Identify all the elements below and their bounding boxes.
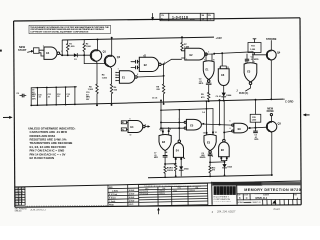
svg-text:12: 12: [215, 132, 217, 134]
wire E5 output to E9: [201, 124, 232, 125]
svg-text:.01: .01: [38, 97, 41, 99]
svg-text:20%: 20%: [32, 98, 36, 100]
svg-text:330: 330: [170, 170, 173, 172]
spare gate input pin boxes: [121, 121, 126, 132]
svg-text:2N3634: 2N3634: [159, 193, 165, 195]
svg-text:12-9-69: 12-9-69: [128, 197, 134, 199]
title block outer verticals: [212, 182, 237, 205]
wire drop to E3b inputs: [247, 52, 253, 63]
gate E1 input stubs: [116, 73, 119, 81]
svg-text:1: 1: [118, 68, 119, 70]
wire E8 out / capacitor C7: [164, 151, 166, 156]
resistor R7: [181, 36, 190, 51]
svg-text:a. Bellis: a. Bellis: [112, 191, 118, 193]
wire Q1 collector to bus: [97, 40, 99, 51]
input terminal box: [34, 48, 40, 54]
gate E2 top pin stub: [144, 55, 146, 58]
svg-text:12-8-69: 12-8-69: [128, 190, 134, 192]
border frame top: [14, 18, 300, 21]
gate E2 (NAND with inverted inputs): [139, 57, 161, 71]
svg-text:REV: REV: [294, 194, 297, 196]
svg-text:C6 .01: C6 .01: [216, 96, 221, 98]
wire Q2 emitter down: [109, 66, 112, 84]
resistor R9: [201, 92, 210, 101]
svg-text:10: 10: [203, 133, 205, 135]
svg-text:.01: .01: [57, 96, 60, 98]
svg-text:+10V: +10V: [216, 36, 223, 40]
svg-text:SHEET: SHEET: [253, 202, 258, 204]
diode D2 (to bus): [222, 86, 233, 101]
label MEM DONE: [267, 107, 275, 115]
svg-text:MMFD: MMFD: [200, 157, 206, 159]
svg-text:1N3606: 1N3606: [189, 190, 195, 192]
svg-text:10: 10: [169, 129, 171, 131]
capacitor C9: [253, 128, 259, 141]
transistor Q5: [266, 121, 281, 131]
scale / sheet strip row: [238, 199, 298, 205]
diode D1: [74, 53, 77, 61]
revision table (bottom left): [15, 187, 26, 206]
wire bus drop to E3btm input 1: [206, 101, 208, 134]
svg-text:R. Doane: R. Doane: [109, 198, 116, 200]
resistor R2: [83, 40, 92, 56]
svg-text:6: 6: [230, 128, 231, 130]
svg-text:11: 11: [212, 156, 214, 158]
resistor R13 under E4b: [170, 160, 177, 177]
svg-text:1,500: 1,500: [86, 46, 92, 48]
svg-text:i: i: [218, 189, 219, 194]
wire bus drop to E5 out net: [219, 100, 221, 125]
svg-text:E2 IS DEC74H40N: E2 IS DEC74H40N: [30, 156, 55, 160]
svg-text:RUN (1): RUN (1): [239, 92, 248, 95]
svg-text:1,000: 1,000: [69, 46, 75, 48]
capacitor C3 on E3b input: [245, 59, 249, 61]
svg-text:TRANSISTOR & DIODE CONVERSION: TRANSISTOR & DIODE CONVERSION CHART: [144, 185, 202, 188]
wire Q5 emitter down to lower bus: [270, 131, 272, 175]
svg-text:C GRD: C GRD: [285, 99, 293, 103]
drawing number strip table: [160, 13, 214, 21]
diode D3 under E4b: [179, 160, 189, 176]
gate E6a (AND pointing down): [218, 69, 229, 86]
svg-text:F2: F2: [122, 129, 124, 131]
svg-text:START: START: [18, 48, 27, 52]
svg-text:6: 6: [164, 62, 165, 64]
svg-text:MFD: MFD: [154, 157, 159, 159]
resistor R6: [110, 84, 118, 105]
transistor Q4: [266, 50, 280, 60]
label C7: [154, 153, 159, 159]
svg-text:C8: C8: [16, 93, 18, 95]
svg-text:3: 3: [208, 51, 209, 53]
size code number rev cells: [237, 193, 298, 200]
svg-text:SCALE: SCALE: [238, 201, 245, 204]
diode D4 under E6btm: [222, 164, 232, 175]
lower ground bus: [148, 175, 272, 178]
svg-text:M720-O-1: M720-O-1: [256, 196, 268, 200]
svg-text:OF: OF: [259, 202, 261, 204]
wire E3b output to J RUN: [246, 85, 251, 92]
label R4: [102, 74, 108, 80]
svg-text:MFD: MFD: [199, 83, 204, 85]
svg-text:2: 2: [61, 51, 62, 53]
wire R11 to Q4 base: [255, 53, 267, 55]
main ground bus: [31, 99, 283, 105]
svg-text:8: 8: [145, 124, 146, 126]
wire vertical to E4b bubble: [178, 110, 180, 140]
svg-text:i: i: [224, 189, 225, 194]
wire E2b output along top: [207, 52, 253, 54]
input arrow into terminal: [28, 50, 34, 53]
svg-text:99: 99: [19, 204, 21, 206]
wire drops to E1a inputs: [206, 54, 212, 62]
svg-text:fount: fount: [274, 207, 281, 211]
gate E1 input pin ticks: [115, 72, 116, 81]
capacitor C18 (left of bank): [16, 93, 26, 97]
svg-text:2: 2: [179, 128, 180, 130]
dark band above title block: [212, 182, 262, 186]
gate E6btm (NAND pointing up, bubble on top): [219, 139, 230, 159]
capacitor C1 on gate E2 inputs: [131, 60, 139, 69]
svg-text:D664: D664: [226, 94, 232, 97]
note box (top left): [29, 25, 111, 33]
svg-text:9: 9: [204, 59, 205, 61]
wire Q2 collector to bus: [111, 38, 113, 57]
transistor Q2: [104, 55, 120, 66]
svg-text:D664: D664: [173, 190, 177, 192]
svg-text:MFD: MFD: [254, 139, 259, 141]
gate E4 (NAND): [44, 47, 60, 59]
svg-text:E. M. Cook: E. M. Cook: [109, 194, 117, 196]
svg-text:1,000: 1,000: [250, 49, 256, 51]
svg-text:d: d: [214, 189, 217, 194]
svg-text:12-9-69: 12-9-69: [128, 201, 134, 203]
capacitor bank grid: [30, 86, 76, 106]
svg-text:A-ML-M720-0-1: A-ML-M720-0-1: [30, 209, 47, 212]
border frame right: [300, 18, 301, 205]
gate E5 (AND horizontal, inverted inputs): [184, 119, 201, 130]
resistor R8: [156, 84, 164, 104]
border frame bottom: [15, 205, 301, 207]
wire E1 output to node B: [137, 76, 163, 77]
wire R2 to Q2 base: [84, 55, 105, 63]
capacitor C8 under E3btm: [200, 153, 213, 163]
resistor R5: [88, 84, 98, 105]
svg-text:10: 10: [213, 59, 215, 61]
tiny print below border left: [15, 209, 28, 213]
gate E3btm (NOR pointing down): [204, 135, 216, 154]
svg-text:B2: B2: [122, 122, 124, 124]
left margin arrow: [3, 116, 13, 119]
label J RUN (1): [236, 90, 248, 95]
title block row dividers: [237, 193, 301, 200]
svg-text:1,500: 1,500: [88, 89, 94, 91]
resistor R15 box: [250, 99, 261, 128]
svg-text:8: 8: [137, 74, 138, 76]
DEC logo digital blocks: [214, 186, 236, 203]
svg-text:DRA 110: DRA 110: [15, 210, 22, 213]
svg-text:8: 8: [166, 152, 167, 154]
svg-text:MEMORY DETECTION M720: MEMORY DETECTION M720: [244, 188, 300, 192]
node / h-wire to E4b leg: [164, 163, 166, 165]
svg-text:CORPORATION: CORPORATION: [214, 198, 231, 201]
svg-text:DONE: DONE: [267, 110, 275, 113]
wire MEM DONE to Q5: [270, 116, 272, 122]
resistor R16: [209, 162, 215, 176]
svg-text:SIZE: SIZE: [237, 195, 240, 197]
svg-text:21: 21: [15, 204, 17, 206]
right margin arrow: [303, 113, 310, 116]
svg-text:5: 5: [230, 121, 231, 123]
svg-text:C5 .01: C5 .01: [152, 98, 157, 100]
gate E4b (NAND pointing up, bubble on top): [173, 140, 185, 160]
wire terminal to gate E4: [39, 50, 44, 56]
svg-text:1: 1: [186, 47, 187, 49]
signature table: [108, 184, 139, 206]
svg-text:2: 2: [186, 59, 187, 61]
label NEW START: [18, 45, 27, 52]
gate E2b (NAND top right): [182, 48, 208, 60]
svg-text:1-0-0118: 1-0-0118: [172, 15, 188, 19]
svg-text:COPYRIGHT 1969 BY DIGITAL EQUI: COPYRIGHT 1969 BY DIGITAL EQUIPMENT CORP…: [30, 31, 88, 34]
wire E5 inputs: [161, 122, 184, 128]
gate E1a (NOR pointing down): [203, 61, 214, 83]
wire bus drop to node A: [61, 40, 63, 55]
wire bus drop x161 to E8/E5: [160, 101, 162, 132]
svg-text:12: 12: [219, 67, 221, 69]
svg-text:.01 MFD: .01 MFD: [251, 59, 259, 61]
svg-text:204, 204, A2627: 204, 204, A2627: [216, 211, 236, 214]
fold arrow below border (pointing up): [157, 207, 160, 214]
svg-text:10: 10: [130, 134, 132, 136]
wire drop to E6a inputs: [221, 53, 227, 68]
svg-text:l: l: [233, 189, 234, 194]
ruler tick marks along bottom border: [26, 205, 107, 207]
wire E2 output rise to gate E3 lower input: [161, 59, 181, 64]
top +10V bus: [62, 37, 214, 40]
resistor R11 box: [248, 39, 261, 53]
svg-text:NT20: NT20: [190, 19, 195, 21]
svg-text:470: 470: [212, 169, 215, 172]
label C GRD: [283, 99, 293, 103]
svg-text:1-5-70: 1-5-70: [129, 204, 134, 206]
transistor Q1: [90, 50, 106, 61]
node dot: [61, 54, 63, 56]
svg-text:g: g: [220, 189, 223, 194]
svg-text:.01: .01: [66, 96, 69, 98]
edge mark left: [0, 50, 2, 52]
pin number labels: [61, 47, 255, 158]
gate E8 (NOR pointing down): [159, 128, 171, 151]
svg-text:R15: R15: [252, 117, 255, 119]
transistor &amp; diode conversion chart: [139, 183, 208, 206]
svg-text:D1: D1: [74, 59, 76, 61]
svg-text:1,500: 1,500: [102, 77, 108, 79]
capacitor C2: [199, 78, 211, 92]
resistor R1: [67, 40, 76, 55]
wire E6btm legs join: [221, 159, 227, 164]
wire node B vertical / E2 out to E3 input: [163, 64, 165, 84]
gate E3b (NOR pointing down): [244, 63, 257, 85]
svg-text:.01: .01: [48, 96, 51, 98]
wire horizontal mid line: [161, 109, 213, 111]
svg-text:13: 13: [227, 67, 229, 69]
border frame left: [14, 21, 15, 207]
wire strobe to Q4: [270, 41, 272, 51]
svg-text:1,000: 1,000: [252, 120, 257, 122]
svg-text:5: 5: [254, 61, 255, 63]
resistor R12: [164, 164, 170, 177]
svg-text:1: 1: [179, 119, 180, 121]
wire Q4 emitter down to bus: [270, 59, 271, 99]
wire bus drop to E9 lower input / E6btm bubble: [224, 101, 231, 140]
svg-text:9: 9: [159, 129, 160, 131]
label C4: [251, 56, 259, 62]
wire node A: E4 output to Q1 base: [60, 54, 91, 55]
gate E9 (AND horizontal, inverted inputs): [232, 123, 248, 133]
labels C5 C6 above bus: [152, 96, 221, 99]
gate E1 (NAND, mid): [119, 71, 137, 83]
notes text block: [28, 126, 75, 160]
title strip top rule: [15, 181, 301, 187]
wire Q1 emitter down: [95, 60, 97, 84]
svg-text:CODE: CODE: [244, 195, 248, 197]
fold arrow (top, pointing down): [151, 13, 154, 20]
svg-text:5: 5: [143, 56, 144, 58]
spare gate E4s: [127, 121, 151, 133]
wire mid line drop to E3btm input 2: [212, 109, 214, 135]
wire E9 out to Q5 base: [248, 126, 268, 129]
label C19: [86, 92, 91, 101]
svg-text:12-8-69: 12-8-69: [128, 194, 134, 196]
node / h-wire to E6btm leg: [209, 161, 211, 163]
svg-text:DEC6534B: DEC6534B: [140, 193, 149, 195]
svg-text:9: 9: [130, 119, 131, 121]
E3btm input pins: [203, 132, 217, 135]
